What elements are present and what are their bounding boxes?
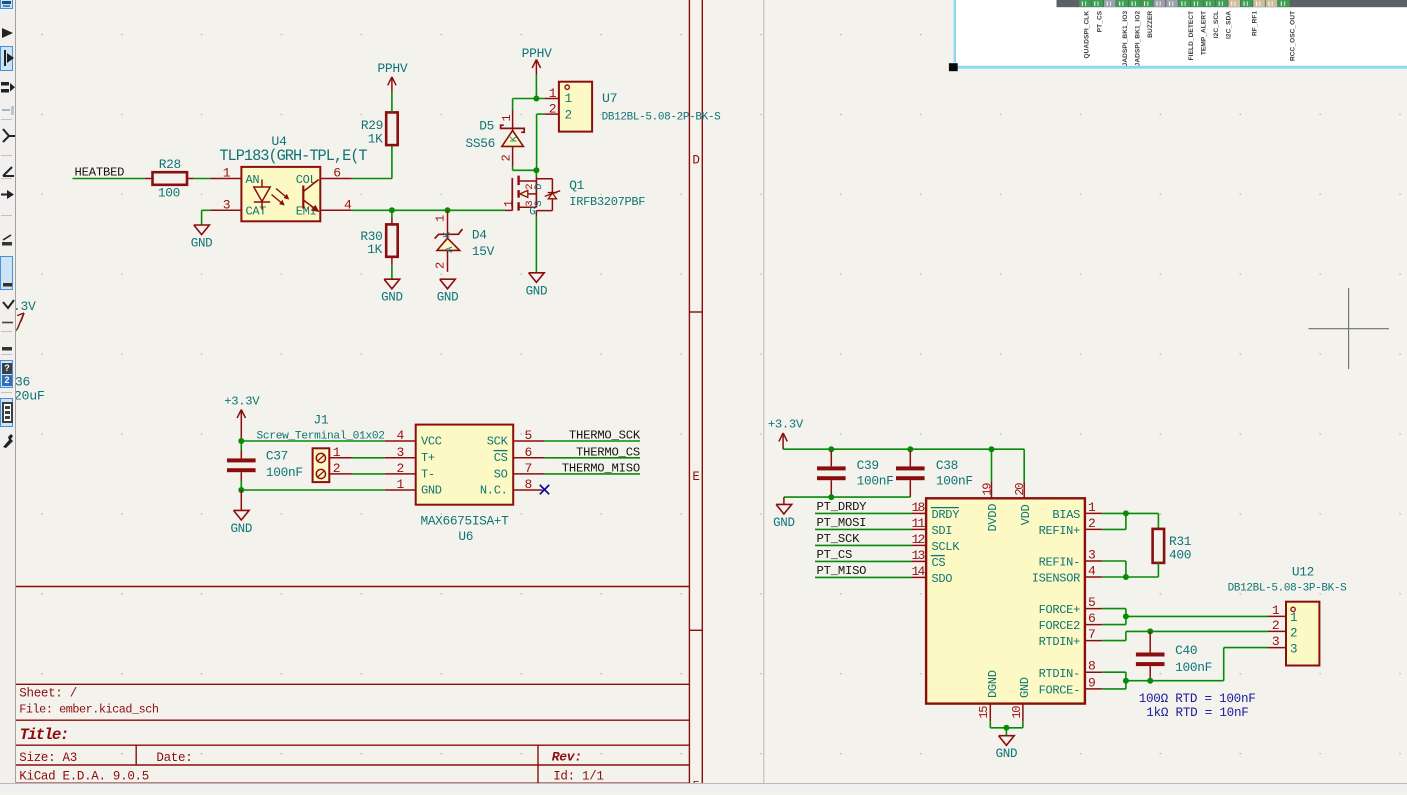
toolbar icon arrow line bbox=[1, 188, 15, 206]
svg-text:1K: 1K bbox=[368, 131, 383, 146]
wire DGND/GND to ground bbox=[989, 722, 991, 728]
wire junction to D5 top bbox=[513, 98, 545, 100]
svg-text:REFIN-: REFIN- bbox=[1039, 556, 1080, 570]
svg-text:VDD: VDD bbox=[1019, 504, 1033, 525]
svg-text:I2C_SDA: I2C_SDA bbox=[1226, 11, 1233, 39]
svg-text:CS: CS bbox=[932, 556, 946, 570]
pinout image chip top bar bbox=[1057, 0, 1407, 7]
U12 pin 1 bbox=[1268, 615, 1287, 617]
wire VDD drop bbox=[1023, 449, 1025, 482]
ground below R30 bbox=[384, 279, 400, 289]
svg-text:PT_MISO: PT_MISO bbox=[817, 564, 867, 578]
svg-text:Q1: Q1 bbox=[569, 178, 584, 193]
wire ground rail bbox=[784, 496, 910, 498]
svg-text:T+: T+ bbox=[421, 451, 435, 465]
title block line above Size row bbox=[16, 744, 689, 746]
IC U11 RTD frontend body bbox=[926, 498, 1085, 703]
toolbar icon zoom-ish bbox=[1, 128, 15, 148]
svg-text:DGND: DGND bbox=[986, 670, 1000, 698]
resistor R28 bbox=[145, 178, 153, 180]
svg-text:D5: D5 bbox=[479, 118, 494, 133]
svg-text:1: 1 bbox=[565, 92, 572, 106]
U11 pin 2 REFIN+ bbox=[1085, 528, 1102, 530]
svg-text:7: 7 bbox=[1088, 627, 1095, 642]
svg-text:10: 10 bbox=[1010, 706, 1024, 719]
svg-text:GND: GND bbox=[1018, 677, 1032, 698]
svg-text:2: 2 bbox=[1088, 516, 1095, 531]
svg-text:HEATBED: HEATBED bbox=[75, 166, 125, 180]
title block divider Size/Date bbox=[135, 745, 137, 765]
svg-text:FORCE-: FORCE- bbox=[1039, 684, 1080, 698]
svg-text:1kΩ RTD = 10nF: 1kΩ RTD = 10nF bbox=[1146, 706, 1248, 720]
wire U4 pin3 to GND bbox=[202, 209, 211, 211]
zener diode D4 bbox=[447, 210, 449, 238]
U4 LED emission arrows bbox=[276, 189, 288, 199]
svg-text:ISENSOR: ISENSOR bbox=[1032, 572, 1080, 586]
wire R31 bottom to ISENSOR/REFIN- bbox=[1157, 563, 1159, 577]
ground left of rail bbox=[783, 497, 785, 504]
svg-text:PPHV: PPHV bbox=[522, 46, 553, 61]
capacitor C40 bbox=[1149, 631, 1151, 652]
wire J1 pin1 to U6 T+ bbox=[352, 457, 385, 459]
wire Q1 source to GND bbox=[535, 211, 537, 217]
svg-text:C37: C37 bbox=[266, 449, 288, 464]
svg-text:Sheet: /: Sheet: / bbox=[19, 686, 77, 700]
svg-text:GND: GND bbox=[773, 516, 795, 530]
svg-text:Date:: Date: bbox=[156, 751, 192, 765]
wire SO with label THERMO_MISO bbox=[545, 473, 640, 475]
optocoupler U4 body bbox=[241, 167, 320, 221]
ground below D4 bbox=[440, 279, 456, 289]
svg-text:PT_DRDY: PT_DRDY bbox=[817, 500, 868, 514]
svg-text:GND: GND bbox=[230, 522, 252, 536]
svg-text:2: 2 bbox=[500, 155, 514, 162]
U11 pin 14 SDO with label PT_MISO bbox=[815, 576, 911, 578]
toolbar selected icon table bbox=[0, 398, 13, 427]
svg-text:15: 15 bbox=[977, 706, 991, 719]
status bar strip bbox=[0, 783, 1407, 791]
toolbar icon diagonal bar bbox=[1, 234, 15, 252]
sheet frame outer border bbox=[701, 0, 703, 783]
optocoupler U4 pin 1 bbox=[211, 178, 242, 180]
wire +3.3V rail bbox=[783, 448, 1024, 450]
U11 pin 9 FORCE- bbox=[1085, 688, 1102, 690]
svg-text:400: 400 bbox=[1169, 548, 1191, 563]
svg-text:RTDIN+: RTDIN+ bbox=[1039, 635, 1081, 649]
svg-text:2: 2 bbox=[1272, 618, 1279, 633]
svg-text:100Ω RTD = 100nF: 100Ω RTD = 100nF bbox=[1139, 692, 1256, 706]
toolbar icon wrench bbox=[1, 433, 15, 454]
toolbar icon arrow bbox=[1, 26, 15, 45]
svg-text:Rev:: Rev: bbox=[552, 750, 582, 765]
resistor R31 bbox=[1153, 529, 1165, 563]
svg-text:U6: U6 bbox=[458, 529, 473, 544]
wire FORCE+/FORCE2 to U12 pin1 bbox=[1102, 608, 1126, 610]
U11 pin 5 FORCE+ bbox=[1085, 608, 1102, 610]
wire R29 to PPHV bbox=[391, 92, 393, 113]
power flag PPHV bbox=[391, 77, 393, 92]
U11 pin 18 DRDY with label PT_DRDY bbox=[815, 512, 911, 514]
junction GND node bbox=[238, 487, 244, 493]
embedded pinout image white background bbox=[956, 0, 1407, 66]
toolbar selected icon wire tool bbox=[0, 256, 13, 290]
junction U7 pin1 node bbox=[533, 96, 539, 102]
svg-text:5: 5 bbox=[1088, 595, 1095, 610]
junction DVDD drop bbox=[989, 446, 995, 452]
svg-text:GND: GND bbox=[381, 291, 403, 305]
capacitor C39 bbox=[830, 451, 832, 466]
title block divider Rev column bbox=[537, 745, 539, 783]
svg-text:RF_RF1: RF_RF1 bbox=[1252, 11, 1259, 36]
toolbar partial selected icon top bbox=[0, 0, 13, 9]
connector U7 body bbox=[559, 82, 592, 132]
wire BIAS/REFIN+ to R31 bbox=[1102, 512, 1158, 514]
IC U6 MAX6675 body bbox=[385, 440, 416, 442]
svg-text:D: D bbox=[533, 184, 545, 190]
svg-text:AN: AN bbox=[246, 173, 260, 187]
toolbar selected icon ERC bbox=[0, 360, 13, 388]
svg-text:Screw_Terminal_01x02: Screw_Terminal_01x02 bbox=[256, 430, 384, 442]
U11 pin 8 RTDIN- bbox=[1085, 671, 1102, 673]
toolbar icon faint bbox=[1, 104, 15, 122]
svg-text:PT_CS: PT_CS bbox=[817, 548, 853, 562]
U11 pin 13 CS with label PT_CS bbox=[815, 560, 911, 562]
svg-text:THERMO_SCK: THERMO_SCK bbox=[569, 429, 641, 443]
optocoupler U4 pin 4 bbox=[320, 209, 352, 211]
U4 phototransistor bbox=[302, 186, 304, 209]
svg-text:1K: 1K bbox=[367, 242, 382, 257]
U11 pin 4 ISENSOR bbox=[1085, 576, 1102, 578]
wire RTDIN+ to U12 pin2 bbox=[1102, 640, 1126, 642]
svg-text:Title:: Title: bbox=[20, 726, 68, 744]
J1 pin 2 bbox=[329, 473, 352, 475]
resistor R30 bbox=[391, 210, 393, 217]
svg-text:THERMO_MISO: THERMO_MISO bbox=[562, 461, 640, 475]
svg-text:THERMO_CS: THERMO_CS bbox=[576, 445, 640, 459]
svg-text:FORCE2: FORCE2 bbox=[1039, 619, 1081, 633]
svg-text:C38: C38 bbox=[936, 458, 958, 473]
wire U4 pin4 to Q1 gate bbox=[352, 209, 505, 211]
junction at D4 bbox=[445, 207, 451, 213]
svg-text:DB12BL-5.08-3P-BK-S: DB12BL-5.08-3P-BK-S bbox=[1228, 582, 1348, 594]
svg-text:GND: GND bbox=[437, 291, 459, 305]
svg-text:3: 3 bbox=[1290, 642, 1297, 656]
junction C39 bottom bbox=[828, 494, 834, 500]
frame tick E/F bbox=[689, 629, 702, 631]
junction Q1 drain node bbox=[533, 167, 539, 173]
title block line above KiCad row bbox=[16, 764, 689, 766]
svg-text:2: 2 bbox=[333, 461, 340, 476]
svg-text:2: 2 bbox=[565, 109, 572, 123]
svg-text:6: 6 bbox=[333, 166, 340, 181]
toolbar icon check bbox=[1, 298, 15, 316]
wire PPHV down to junction bbox=[535, 75, 537, 98]
wire U4 pin6 to R29 bbox=[352, 178, 392, 180]
U6 pin 7 SO bbox=[513, 473, 545, 475]
U12 pin 3 bbox=[1268, 647, 1287, 649]
svg-text:19: 19 bbox=[981, 483, 995, 496]
svg-text:I2C_SCL: I2C_SCL bbox=[1213, 11, 1220, 38]
ground below C37 bbox=[240, 490, 242, 510]
U6 pin 6 CS bbox=[513, 457, 545, 459]
junction C40 top bbox=[1147, 628, 1153, 634]
svg-text:REFIN+: REFIN+ bbox=[1039, 524, 1081, 538]
toolbar selected icon highlight tool bbox=[0, 46, 13, 71]
svg-text:8: 8 bbox=[1088, 659, 1095, 674]
junction C38 top bbox=[907, 446, 913, 452]
svg-text:J1: J1 bbox=[314, 412, 329, 427]
svg-text:JADSPI_BK1_IO3: JADSPI_BK1_IO3 bbox=[1122, 11, 1129, 67]
svg-text:DVDD: DVDD bbox=[986, 504, 1000, 532]
cursor crosshair bbox=[1348, 288, 1350, 369]
svg-text:EMI: EMI bbox=[296, 204, 317, 218]
sheet page edge bbox=[763, 0, 765, 783]
svg-text:Size: A3: Size: A3 bbox=[19, 751, 77, 765]
wire D5 bottom to junction bbox=[513, 169, 537, 171]
J1 pin 1 bbox=[329, 457, 352, 459]
svg-text:E: E bbox=[692, 470, 699, 484]
svg-text:MAX6675ISA+T: MAX6675ISA+T bbox=[421, 514, 510, 529]
title block top line bbox=[16, 683, 689, 685]
U12 pin 2 bbox=[1268, 630, 1287, 632]
svg-text:R28: R28 bbox=[159, 157, 181, 172]
wire GND rail to U6 GND bbox=[241, 489, 385, 491]
svg-text:C40: C40 bbox=[1175, 643, 1197, 658]
wire CS with label THERMO_CS bbox=[545, 457, 640, 459]
U11 pin 7 RTDIN+ bbox=[1085, 640, 1102, 642]
U6 pin 8 N.C. with no-connect flag bbox=[513, 489, 542, 491]
svg-text:SCK: SCK bbox=[487, 434, 509, 448]
svg-text:100nF: 100nF bbox=[1175, 660, 1212, 675]
svg-text:100nF: 100nF bbox=[857, 474, 894, 489]
frame tick D/E bbox=[689, 311, 702, 313]
wire DVDD drop bbox=[991, 449, 993, 482]
svg-text:TLP183(GRH-TPL,E(T: TLP183(GRH-TPL,E(T bbox=[219, 147, 367, 165]
svg-text:GND: GND bbox=[996, 747, 1018, 761]
svg-text:IRFB3207PBF: IRFB3207PBF bbox=[569, 195, 645, 209]
svg-text:7: 7 bbox=[524, 461, 531, 476]
svg-text:S: S bbox=[533, 201, 545, 207]
svg-text:K: K bbox=[508, 135, 520, 142]
svg-text:3: 3 bbox=[1272, 634, 1279, 649]
svg-text:T-: T- bbox=[421, 467, 435, 481]
U11 pin 3 REFIN- bbox=[1085, 560, 1102, 562]
svg-text:TEMP_ALERT: TEMP_ALERT bbox=[1201, 11, 1208, 55]
selection handle bbox=[949, 63, 958, 71]
selection box bottom edge bbox=[956, 66, 1407, 69]
svg-text:13: 13 bbox=[911, 548, 924, 563]
svg-text:BIAS: BIAS bbox=[1052, 508, 1080, 522]
svg-text:FIELD_DETECT: FIELD_DETECT bbox=[1188, 11, 1195, 61]
svg-text:100nF: 100nF bbox=[266, 465, 303, 480]
U6 pin 5 SCK bbox=[513, 440, 545, 442]
power flag PPHV at Q1 drain bbox=[535, 60, 537, 76]
svg-text:100nF: 100nF bbox=[936, 474, 973, 489]
resistor R29 bbox=[386, 112, 398, 145]
svg-text:12: 12 bbox=[911, 532, 924, 547]
title block separator line bbox=[16, 586, 689, 588]
svg-text:20: 20 bbox=[1013, 483, 1027, 496]
selection box left edge bbox=[954, 0, 956, 63]
svg-text:CS: CS bbox=[494, 451, 508, 465]
svg-text:D4: D4 bbox=[472, 228, 487, 243]
svg-text:Id: 1/1: Id: 1/1 bbox=[553, 769, 603, 783]
wire RTDIN-/FORCE- to U12 pin3 bbox=[1102, 671, 1126, 673]
svg-text:CAT: CAT bbox=[246, 204, 267, 218]
svg-text:C39: C39 bbox=[857, 458, 879, 473]
svg-text:1: 1 bbox=[502, 200, 516, 207]
U4 internal LED bbox=[261, 180, 263, 188]
ground below Q1 bbox=[529, 273, 545, 283]
svg-text:SDO: SDO bbox=[932, 572, 953, 586]
svg-text:G: G bbox=[529, 207, 535, 219]
svg-text:PT_CS: PT_CS bbox=[1096, 10, 1103, 32]
wire HEATBED to R28 bbox=[73, 178, 146, 180]
ground below U11 bbox=[999, 736, 1015, 746]
svg-text:11: 11 bbox=[911, 516, 925, 531]
svg-text:5: 5 bbox=[524, 428, 531, 443]
svg-text:+3.3V: +3.3V bbox=[224, 394, 260, 408]
wire J1 pin2 to U6 T- bbox=[352, 473, 385, 475]
svg-text:2: 2 bbox=[549, 101, 556, 116]
svg-text:DB12BL-5.08-2P-BK-S: DB12BL-5.08-2P-BK-S bbox=[602, 112, 722, 124]
svg-text:1: 1 bbox=[1290, 611, 1297, 625]
toolbar icon dark bar bbox=[1, 340, 15, 358]
U11 pin 12 SCLK with label PT_SCK bbox=[815, 544, 911, 546]
svg-text:JADSPI_BK1_IO2: JADSPI_BK1_IO2 bbox=[1135, 11, 1142, 67]
svg-text:9: 9 bbox=[1088, 675, 1095, 690]
svg-text:FORCE+: FORCE+ bbox=[1039, 603, 1081, 617]
svg-text:GND: GND bbox=[526, 284, 548, 298]
wire SCK with label THERMO_SCK bbox=[545, 440, 640, 442]
svg-text:2: 2 bbox=[434, 262, 448, 269]
wire U7 pin2 down to Q1 drain junction bbox=[537, 113, 545, 115]
ground below U4 bbox=[194, 225, 210, 235]
svg-text:6: 6 bbox=[1088, 611, 1095, 626]
svg-text:2: 2 bbox=[396, 461, 403, 476]
svg-text:14: 14 bbox=[911, 564, 925, 579]
svg-text:3: 3 bbox=[223, 197, 230, 212]
svg-text:RTDIN-: RTDIN- bbox=[1039, 667, 1080, 681]
svg-text:1: 1 bbox=[434, 215, 448, 222]
svg-text:SCLK: SCLK bbox=[932, 540, 961, 554]
svg-text:8: 8 bbox=[524, 477, 531, 492]
svg-text:N.C.: N.C. bbox=[480, 483, 508, 497]
optocoupler U4 pin 6 bbox=[320, 178, 352, 180]
svg-text:U12: U12 bbox=[1292, 564, 1314, 579]
svg-text:A: A bbox=[444, 246, 456, 253]
svg-text:100: 100 bbox=[158, 186, 180, 201]
U11 pin 1 BIAS bbox=[1085, 512, 1102, 514]
U11 pin 10 GND bbox=[1022, 704, 1024, 722]
optocoupler U4 pin 3 bbox=[211, 209, 242, 211]
svg-text:VCC: VCC bbox=[421, 434, 442, 448]
svg-text:SS56: SS56 bbox=[465, 136, 495, 151]
svg-text:SO: SO bbox=[494, 467, 508, 481]
svg-text:D: D bbox=[692, 154, 699, 168]
svg-text:K: K bbox=[441, 231, 453, 238]
wire +3.3V to U6 VCC bbox=[241, 440, 385, 442]
connector U7 pin 1 bbox=[545, 98, 559, 100]
junction C39 top bbox=[828, 446, 834, 452]
schottky diode D5 bbox=[512, 99, 514, 111]
svg-text:DRDY: DRDY bbox=[932, 508, 960, 522]
connector U7 pin 2 bbox=[544, 113, 559, 115]
junction at R30 bbox=[389, 207, 395, 213]
svg-text:18: 18 bbox=[911, 500, 924, 515]
U11 pin 11 SDI with label PT_MOSI bbox=[815, 528, 911, 530]
svg-text:GND: GND bbox=[421, 483, 442, 497]
svg-text:PPHV: PPHV bbox=[377, 61, 408, 76]
title block line above Title bbox=[16, 719, 689, 721]
capacitor C38 bbox=[909, 451, 911, 466]
U11 pin 6 FORCE2 bbox=[1085, 624, 1102, 626]
svg-text:2: 2 bbox=[1290, 627, 1297, 641]
svg-text:PT_MOSI: PT_MOSI bbox=[817, 516, 867, 530]
svg-text:COL: COL bbox=[296, 173, 317, 187]
svg-text:KiCad E.D.A. 9.0.5: KiCad E.D.A. 9.0.5 bbox=[19, 769, 149, 783]
svg-text:+3.3V: +3.3V bbox=[768, 417, 804, 431]
svg-text:RCC_OSC_OUT: RCC_OSC_OUT bbox=[1290, 11, 1297, 61]
svg-text:BUZZER: BUZZER bbox=[1147, 11, 1154, 38]
svg-text:6: 6 bbox=[524, 445, 531, 460]
svg-text:GND: GND bbox=[191, 237, 213, 251]
wire R28 to U4 pin1 bbox=[193, 178, 210, 180]
toolbar icon bars arrow bbox=[1, 81, 15, 99]
U11 pin 15 DGND bbox=[989, 704, 991, 722]
toolbar icon angle bbox=[1, 165, 15, 183]
svg-text:3: 3 bbox=[396, 445, 403, 460]
svg-text:U7: U7 bbox=[602, 91, 617, 106]
svg-text:SDI: SDI bbox=[932, 524, 953, 538]
svg-text:File: ember.kicad_sch: File: ember.kicad_sch bbox=[19, 703, 159, 717]
svg-text:PT_SCK: PT_SCK bbox=[817, 532, 861, 546]
svg-text:1: 1 bbox=[500, 115, 514, 122]
capacitor C37 bbox=[240, 441, 242, 451]
title block bottom line bbox=[16, 782, 689, 784]
junction +3.3V node bbox=[238, 438, 244, 444]
sheet frame inner border bbox=[688, 0, 690, 783]
svg-text:3: 3 bbox=[1088, 547, 1095, 562]
toolbar icon dash bbox=[1, 314, 15, 332]
svg-text:15V: 15V bbox=[472, 244, 495, 259]
svg-text:QUADSPI_CLK: QUADSPI_CLK bbox=[1083, 11, 1090, 59]
transistor Q1 IRFB3207PBF bbox=[535, 170, 537, 176]
